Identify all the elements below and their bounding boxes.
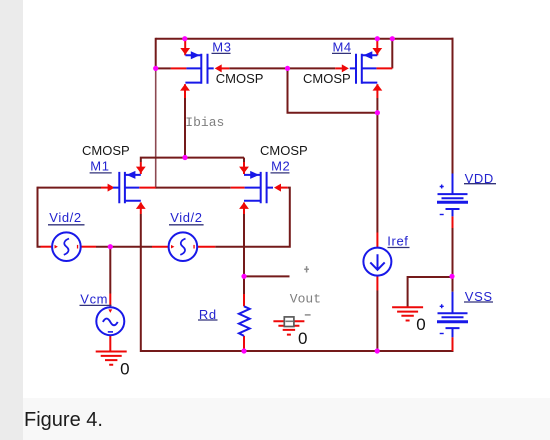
svg-text:Vout: Vout (290, 292, 321, 307)
svg-text:CMOSP: CMOSP (303, 71, 351, 86)
svg-text:VDD: VDD (465, 171, 494, 186)
svg-text:CMOSP: CMOSP (260, 143, 308, 158)
svg-text:Vid/2: Vid/2 (49, 210, 81, 225)
svg-text:0: 0 (120, 359, 129, 378)
svg-text:Vcm: Vcm (80, 291, 108, 306)
svg-text:M2: M2 (271, 158, 290, 173)
svg-text:M1: M1 (90, 158, 109, 173)
svg-text:CMOSP: CMOSP (216, 71, 264, 86)
svg-text:CMOSP: CMOSP (82, 143, 130, 158)
svg-text:VSS: VSS (465, 289, 493, 304)
svg-text:Ibias: Ibias (185, 115, 224, 130)
svg-text:Vid/2: Vid/2 (170, 210, 202, 225)
svg-text:Rd: Rd (199, 307, 217, 322)
svg-text:M4: M4 (333, 40, 352, 55)
svg-text:M3: M3 (212, 40, 231, 55)
svg-text:Iref: Iref (387, 233, 408, 248)
svg-text:0: 0 (416, 315, 425, 334)
svg-text:0: 0 (298, 329, 307, 348)
